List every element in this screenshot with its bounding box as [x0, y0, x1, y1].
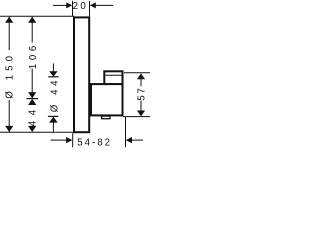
wire top reference line (extension of plate top edge) [0, 15, 74, 17]
wire extension line bottom of 57 dim [123, 116, 150, 118]
dimension line D2 (106) [28, 17, 36, 99]
wire extension line left of 54-82 dim [72, 133, 74, 147]
wire extension line left of 20 dim [72, 1, 74, 17]
wire extension line right of 54-82 dim [125, 117, 127, 147]
dimension line D4 (diameter 44 of handle) [48, 64, 59, 132]
escutcheon plate body (side view slab) [74, 17, 89, 132]
dimension line D7 (54-82 installation depth) [51, 137, 144, 143]
handle step inner groove line [105, 74, 122, 76]
svg-text:20: 20 [73, 1, 89, 12]
wire extension line top of 57 dim [124, 72, 150, 74]
node junction tick between 106 and 44 chains [27, 98, 39, 100]
svg-text:57: 57 [137, 86, 148, 100]
wire extension line right of 20 dim [89, 1, 91, 17]
handle bottom tab button [102, 116, 110, 119]
svg-text:54-82: 54-82 [77, 137, 112, 148]
wire bottom reference line (extension of plate bottom edge) [0, 131, 74, 133]
dimension line D1 (diameter 150) [5, 17, 13, 132]
svg-text:Ø 150: Ø 150 [5, 52, 16, 99]
handle body [91, 84, 123, 115]
dimension line D5 (20 depth at top) [53, 2, 113, 8]
svg-text:Ø 44: Ø 44 [49, 77, 60, 112]
dimension line D6 (57 handle height) [137, 73, 145, 116]
svg-text:44: 44 [28, 104, 39, 126]
svg-text:106: 106 [28, 42, 39, 69]
handle step block on top [104, 71, 122, 84]
dimension line D3 (44 lower chain) [28, 99, 36, 132]
